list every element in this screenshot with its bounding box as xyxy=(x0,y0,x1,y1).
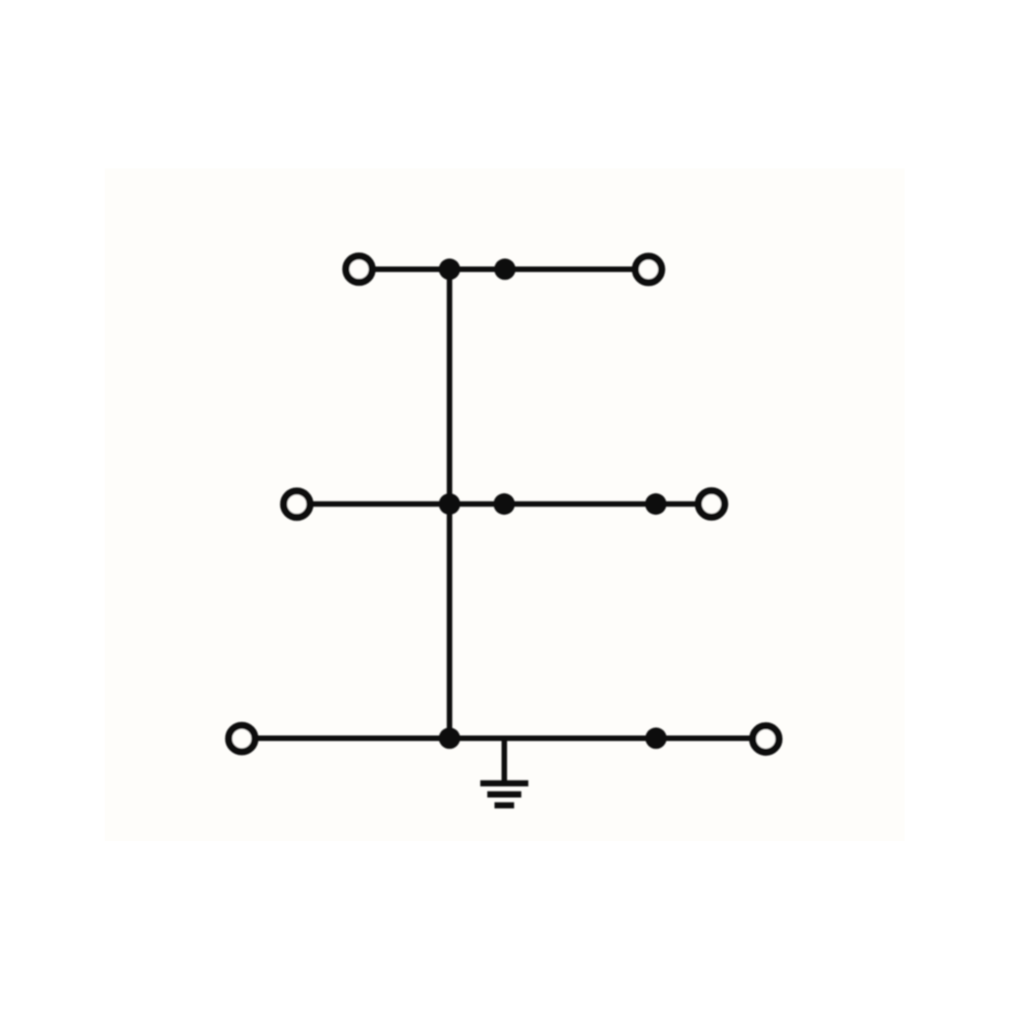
image background panel xyxy=(105,168,905,841)
junction: middle rail / vertical link xyxy=(439,493,460,514)
wire: bottom rail (level 3 / ground bus) xyxy=(242,735,766,741)
wire: middle rail (level 2 bus) xyxy=(297,501,712,507)
node: top rail tap point xyxy=(494,259,515,280)
terminal: level 2 right clamp xyxy=(698,491,724,517)
ground: bar 3 xyxy=(495,802,515,808)
node: middle rail right tap point xyxy=(645,493,666,514)
junction: top rail / vertical link xyxy=(439,259,460,280)
ground: bar 2 xyxy=(487,791,521,797)
wire: top rail (level 1 bus) xyxy=(359,266,649,272)
wire: ground stem xyxy=(502,738,508,783)
terminal: level 2 left clamp xyxy=(284,491,310,517)
terminal: level 1 right clamp xyxy=(635,256,661,282)
wire: vertical commoning link xyxy=(447,269,453,738)
junction: bottom rail / vertical link xyxy=(439,728,460,749)
terminal: level 3 left clamp xyxy=(229,725,255,751)
terminal: level 1 left clamp xyxy=(346,256,372,282)
node: middle rail tap point xyxy=(494,493,515,514)
ground: bar 1 xyxy=(480,780,528,786)
node: bottom rail right tap point xyxy=(645,728,666,749)
terminal: level 3 right clamp xyxy=(753,726,779,752)
